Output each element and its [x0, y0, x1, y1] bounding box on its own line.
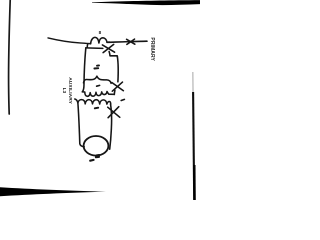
wire: loop1 top edge with antenna junction stub [86, 44, 103, 49]
wire: antenna lead-in [48, 38, 91, 44]
tick label inside loop1 winding [97, 84, 100, 87]
wire: loop2 right edge [110, 105, 112, 150]
wire: loop1 right edge [114, 57, 118, 95]
label L4 below lamp [90, 155, 99, 161]
tiny label inside loop2 [95, 107, 98, 110]
svg-text:L3: L3 [62, 88, 67, 94]
wire: loop2 left edge [78, 103, 84, 147]
page edge shadow right (decorative) [192, 72, 194, 96]
crossed-wires X at loop1 right edge [112, 82, 123, 91]
wire: loop1 left edge [83, 48, 86, 92]
stray tick near loop2 top right [121, 99, 124, 100]
page edge shadow left (decorative) [9, 0, 11, 114]
page edge shadow top-right (decorative) [92, 0, 200, 5]
wire: lead toward PRIMARY [107, 41, 147, 42]
inductor L3: loop2 top scalloped winding [75, 99, 111, 105]
inductor L2: 2-turn loading coil on antenna lead [91, 37, 110, 43]
svg-text:AUXILIARY: AUXILIARY [67, 77, 73, 104]
crossed-wires X at loop2 right edge [108, 107, 120, 118]
crossed-wires X on primary lead [127, 39, 135, 44]
label L2 inside loop1 [94, 65, 99, 68]
crossed-wires X: tap below coil [102, 44, 114, 52]
inductor L1: loop1 bottom scalloped winding [82, 92, 114, 97]
page edge shadow bottom (decorative) [0, 187, 106, 196]
lamp (circle) in loop2 [84, 136, 109, 156]
svg-text:PRIMARY: PRIMARY [149, 37, 155, 61]
svg-text:8: 8 [99, 30, 102, 35]
wire: tap step down to loop1 right edge [109, 52, 117, 57]
coil winding curve inside loop1 [84, 76, 112, 83]
